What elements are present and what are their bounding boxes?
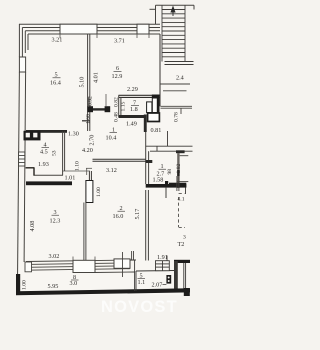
svg-text:6: 6 — [116, 65, 119, 72]
svg-text:0.81: 0.81 — [151, 127, 162, 134]
room3 top wall thick — [26, 181, 72, 185]
svg-text:12.9: 12.9 — [112, 73, 123, 80]
wall below entrance — [144, 115, 147, 133]
svg-text:3.12: 3.12 — [106, 167, 117, 174]
right wall of right loggia — [184, 263, 186, 289]
door jamb left — [87, 106, 93, 112]
bathroom right wall — [177, 153, 179, 188]
svg-text:0.78: 0.78 — [174, 112, 180, 122]
svg-text:4.08: 4.08 — [29, 221, 36, 232]
svg-text:1.82: 1.82 — [176, 164, 182, 174]
niche lines right of bathroom — [177, 156, 188, 182]
staircase landing bottom — [165, 62, 194, 65]
svg-text:5.95: 5.95 — [48, 283, 59, 290]
bottom exterior thick wall (slight tilt) — [16, 288, 190, 295]
svg-text:1.91: 1.91 — [157, 254, 168, 261]
room5 bottom wall — [26, 130, 67, 133]
right wall below thick wall — [185, 188, 187, 195]
balcony sill line — [95, 271, 135, 274]
balcony window W2 — [114, 259, 130, 268]
landing entry lines right — [160, 84, 190, 91]
bathroom left wall — [146, 132, 149, 184]
svg-text:5.10: 5.10 — [79, 77, 86, 88]
room3/room2 divider lower — [84, 203, 86, 261]
short double vertical right of W2 — [132, 251, 134, 260]
window W2 top wall — [137, 24, 149, 34]
left exterior wall double line — [17, 72, 25, 291]
svg-text:1.00: 1.00 — [96, 187, 102, 197]
svg-text:4.5: 4.5 — [40, 149, 48, 156]
band-left white end box — [25, 262, 32, 272]
dim tick left of 3.12 — [86, 167, 92, 169]
bathroom left stub wall — [146, 160, 153, 163]
door jamb right — [105, 106, 111, 112]
svg-text:Т2: Т2 — [178, 241, 185, 248]
room 5/6 divider wall — [88, 34, 90, 131]
room 7 bottom wall — [119, 115, 146, 118]
room 6 right wall — [159, 34, 161, 106]
svg-text:10.4: 10.4 — [106, 135, 117, 142]
svg-text:53: 53 — [52, 150, 58, 156]
corridor right double line — [161, 106, 193, 114]
bathroom bottom wall — [146, 184, 187, 188]
svg-text:1.10: 1.10 — [75, 161, 81, 171]
svg-text:2.07: 2.07 — [152, 282, 163, 289]
svg-text:1.49: 1.49 — [126, 121, 137, 128]
svg-text:3.71: 3.71 — [114, 38, 125, 45]
svg-text:12.3: 12.3 — [50, 218, 61, 225]
bathroom top wall double line — [146, 131, 193, 151]
svg-text:3.02: 3.02 — [49, 253, 60, 260]
apartment interior fill — [19, 24, 190, 295]
room4 right wall — [35, 132, 65, 176]
thin door lines above jambs — [89, 94, 107, 106]
left wall hatched window — [19, 152, 25, 166]
svg-text:1.58: 1.58 — [153, 177, 164, 184]
window W1 top wall — [60, 24, 97, 34]
vertical divider line through band — [122, 252, 124, 277]
small black mark left of thick wall — [165, 181, 168, 188]
svg-text:3.0: 3.0 — [70, 280, 78, 287]
vertical double through thick wall — [177, 176, 179, 191]
svg-text:0.82: 0.82 — [114, 97, 120, 107]
black door-closer blob in loggia — [166, 275, 171, 284]
dark double bar right of loggia 5 — [174, 261, 178, 292]
top-left corner wall lines — [19, 24, 28, 57]
svg-text:5: 5 — [55, 72, 58, 79]
svg-text:1.15: 1.15 — [121, 102, 127, 112]
window W-left (in left wall) — [19, 57, 25, 72]
right wall foot — [184, 288, 190, 296]
dark bar above right wall — [176, 150, 185, 153]
hall/room2 boundary wall — [93, 159, 146, 161]
thin swing line near divider — [82, 120, 90, 122]
dim line 1.01 — [63, 168, 90, 175]
svg-text:4.1: 4.1 — [178, 197, 185, 203]
dashed storage box — [179, 194, 185, 228]
svg-text:1.1: 1.1 — [138, 279, 146, 286]
svg-text:16.4: 16.4 — [50, 80, 61, 87]
staircase — [162, 5, 185, 61]
bottom window band lines (slight scan tilt) — [26, 260, 136, 270]
svg-text:1.60: 1.60 — [86, 114, 92, 124]
svg-text:1.8: 1.8 — [130, 106, 138, 113]
svg-text:0.92: 0.92 — [88, 96, 94, 106]
room3/room2 divider upper — [89, 171, 91, 181]
bottom-left thick wall bar — [16, 274, 20, 292]
loggia hatched window — [156, 256, 170, 271]
hall upper wall segment with jambs — [89, 108, 109, 110]
svg-text:3: 3 — [183, 235, 186, 241]
balcony window W1 with door — [73, 260, 95, 272]
svg-text:1.93: 1.93 — [38, 161, 49, 168]
svg-text:2.4: 2.4 — [176, 75, 184, 82]
svg-text:1.01: 1.01 — [65, 175, 76, 182]
room 7 left wall — [119, 95, 121, 117]
vent boxes at room4 top — [24, 131, 41, 141]
svg-text:3.21: 3.21 — [52, 37, 63, 44]
svg-text:2.70: 2.70 — [89, 135, 96, 146]
dim ticks under top windows — [60, 34, 149, 38]
svg-text:1.00: 1.00 — [22, 280, 28, 290]
svg-text:2.29: 2.29 — [127, 86, 138, 93]
room4 bottom-left L stub — [26, 168, 35, 176]
svg-text:4.01: 4.01 — [93, 72, 100, 83]
svg-text:16.0: 16.0 — [113, 213, 124, 220]
stairwell connector wall — [150, 5, 195, 24]
staircase up arrow — [170, 6, 175, 17]
svg-text:5.17: 5.17 — [134, 209, 141, 220]
black wall box bottom right — [174, 260, 190, 263]
loggia 5 box — [130, 260, 174, 291]
entrance door cluster — [147, 95, 160, 122]
svg-text:NOVOST: NOVOST — [101, 298, 178, 316]
lower-right thick wall — [169, 183, 186, 188]
dimension tick marks bottom band — [73, 257, 95, 261]
top exterior wall 4 lines — [19, 24, 160, 34]
room2 right wall — [146, 190, 149, 261]
svg-text:4.20: 4.20 — [82, 147, 93, 154]
short stub below bathroom — [165, 187, 167, 198]
svg-text:1.30: 1.30 — [68, 131, 79, 138]
svg-text:0.48: 0.48 — [113, 112, 119, 122]
door leaf room3/2 — [86, 181, 93, 203]
room 6 bottom wall — [119, 95, 161, 97]
svg-text:98: 98 — [167, 169, 173, 175]
